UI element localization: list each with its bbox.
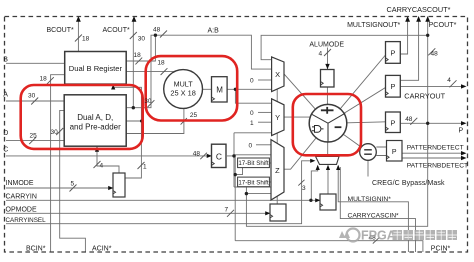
wire P2 out carryout (401, 85, 465, 87)
wire CARRYIN input (6, 199, 320, 201)
slash CARRYOUT width 4 (450, 80, 457, 87)
junction PCIN to shift (234, 173, 237, 176)
svg-text:P: P (390, 48, 395, 57)
wire MULT to M register (203, 88, 212, 90)
wire P feedback top run to X mux (261, 19, 428, 123)
slash PCIN width 48 (373, 238, 379, 244)
svg-text:18: 18 (134, 52, 142, 59)
arrowhead BCOUT (76, 16, 81, 22)
svg-text:CARRYCASCOUT*: CARRYCASCOUT* (387, 5, 451, 14)
wire Z mux const 0 stub (256, 144, 271, 146)
slash D width 25 (29, 137, 36, 144)
wire B input (6, 62, 65, 64)
wire ACIN cascade (60, 110, 86, 252)
mux Y (272, 99, 284, 136)
arrowhead PATTERNBDETECT (461, 156, 467, 160)
arrowhead CARRYIN register in (315, 198, 320, 202)
svg-text:0: 0 (249, 143, 253, 150)
wire ACOUT up (132, 19, 134, 108)
svg-text:3: 3 (302, 185, 306, 192)
wire P2 out carrycascout (401, 19, 419, 80)
svg-text:30: 30 (138, 36, 146, 43)
register P4 pattern detect (387, 141, 403, 162)
svg-text:4: 4 (319, 50, 323, 57)
slash OPMODE width 7 (227, 210, 234, 217)
svg-text:ACIN*: ACIN* (92, 245, 112, 252)
register ALUMODE (321, 70, 335, 88)
wire B out to A:B (126, 35, 155, 61)
arrowheads (76, 16, 467, 215)
wire carryin register to carry mux (327, 166, 329, 194)
slash A:B width 48 (160, 31, 167, 38)
wire C out branch to Y and Z mux (227, 133, 272, 187)
svg-text:MULTSIGNOUT*: MULTSIGNOUT* (347, 22, 400, 29)
wire BCOUT up (77, 19, 79, 52)
register Dual B Register (65, 52, 127, 85)
slash ACOUT width 30 (130, 32, 137, 39)
svg-text:and Pre-adder: and Pre-adder (70, 123, 121, 132)
svg-text:0: 0 (250, 110, 254, 117)
wire PCIN entry (235, 241, 423, 252)
arrowhead P output (461, 121, 467, 125)
arrowhead ACOUT (132, 16, 137, 22)
svg-text:FPGA: FPGA (361, 229, 396, 243)
svg-text:MULTSIGNIN*: MULTSIGNIN* (348, 196, 392, 203)
wire multsignin to carry mux (338, 166, 408, 252)
wire INMODE register out 4 bits (97, 147, 119, 173)
arrowhead INMODE register in (108, 186, 113, 190)
svg-text:X: X (275, 70, 280, 79)
wire M out branch to Y mux (235, 89, 271, 103)
arrowhead carry mux input 2 (326, 165, 330, 170)
register OPMODE (270, 204, 286, 221)
svg-text:CARRYINSEL: CARRYINSEL (6, 217, 47, 224)
slash width ticks (29, 31, 456, 244)
svg-text:PCIN*: PCIN* (431, 245, 451, 252)
slash INMODE reg out 4 (94, 161, 101, 168)
wire A out to A:B (126, 35, 155, 108)
svg-text:18: 18 (157, 60, 165, 67)
block 17-Bit Shift upper (238, 158, 270, 168)
wire INMODE register out 1 bit (113, 85, 141, 179)
arrowhead ALUMODE register in (325, 64, 329, 69)
arrowhead INMODE to Dual B (111, 84, 115, 89)
svg-text:48: 48 (193, 150, 201, 157)
wire Y mux const 0 stub (258, 111, 272, 113)
svg-text:P: P (390, 118, 395, 127)
svg-text:C: C (3, 147, 8, 154)
slash PCOUT width 48 (428, 48, 435, 55)
wire P1 out multsignout (401, 19, 408, 54)
junction INMODE bit to Dual A,D (140, 120, 143, 123)
wire ALUMODE register to ALU (326, 87, 328, 106)
register INMODE (113, 173, 125, 197)
slash ACIN width 30 (56, 128, 63, 135)
wire comparator to P4 (376, 147, 386, 156)
slash A width 30 (31, 98, 38, 105)
slash ALUMODE width 4 (324, 49, 331, 56)
junction P feedback top (426, 34, 429, 37)
junction A:B bus (154, 34, 157, 37)
svg-text:30: 30 (144, 98, 152, 105)
arrowhead CARRYOUT (461, 84, 467, 88)
comparator equals circle (360, 144, 377, 161)
wire ALUMODE down to register (327, 48, 329, 70)
svg-text:M: M (216, 85, 223, 94)
svg-text:CARRYOUT: CARRYOUT (404, 92, 445, 101)
svg-text:7: 7 (225, 206, 229, 213)
svg-text:30: 30 (28, 93, 36, 100)
slash P width 48 (410, 118, 417, 125)
register M (212, 77, 228, 102)
slash INMODE reg out 1 (138, 162, 145, 169)
wire PCIN vertical to Z mux (235, 155, 271, 241)
red highlight oval multiplier (146, 56, 238, 120)
svg-text:PCOUT*: PCOUT* (429, 20, 457, 29)
arrowhead MULTSIGNOUT (405, 16, 410, 22)
arrowhead carry mux input 1 (316, 165, 320, 170)
svg-text:PATTERNDETECT: PATTERNDETECT (407, 145, 464, 152)
slash AD width 25 (181, 118, 187, 125)
wire A input (6, 100, 64, 102)
svg-text:PATTERNBDETECT: PATTERNBDETECT (407, 163, 468, 170)
wire BCIN cascade (51, 75, 65, 252)
arrowhead C register in (207, 154, 212, 158)
svg-text:48: 48 (405, 116, 413, 123)
arrowhead PCOUT (425, 16, 430, 22)
svg-text:18: 18 (82, 36, 90, 43)
svg-text:25: 25 (30, 133, 38, 140)
slash BCOUT width 18 (75, 35, 82, 42)
wire P feedback to Z and shift 2 (246, 123, 427, 226)
svg-text:BCIN*: BCIN* (26, 245, 46, 252)
arrowhead CARRYINSEL select (310, 159, 315, 163)
svg-text:30: 30 (51, 129, 59, 136)
register P2 carryout (386, 75, 401, 97)
svg-text:17-Bit Shift: 17-Bit Shift (238, 179, 269, 186)
svg-text:17-Bit Shift: 17-Bit Shift (238, 160, 269, 167)
slash B to MULT width 18 (161, 68, 168, 75)
wire OPMODE input (6, 212, 270, 214)
wire PATTERNBDETECT out (402, 157, 465, 159)
block 17-Bit Shift lower (238, 177, 270, 187)
arrowhead INMODE to Dual A,D (95, 147, 99, 152)
carry select mux trapezoid (316, 157, 339, 165)
slash BCIN width 18 (47, 77, 54, 84)
wire 17-bit shift 1 out to Z (269, 162, 271, 164)
wire PATTERNDETECT out (402, 152, 465, 154)
ALU circle (309, 104, 347, 142)
svg-text:0: 0 (250, 78, 254, 85)
junction CARRYIN direct (309, 199, 312, 202)
register CARRYIN (320, 194, 336, 210)
svg-text:Y: Y (275, 113, 280, 122)
svg-text:ALUMODE: ALUMODE (309, 42, 344, 49)
arrowhead PATTERNDETECT (461, 151, 467, 155)
svg-text:CREG/C Bypass/Mask: CREG/C Bypass/Mask (372, 180, 445, 187)
svg-text:D: D (3, 130, 8, 137)
svg-text:MULT: MULT (174, 80, 194, 89)
svg-text:P: P (392, 149, 397, 156)
block Dual A, D, and Pre-adder (64, 95, 126, 146)
wire X mux out to ALU (284, 74, 328, 123)
arrowhead CARRYCASCOUT (416, 16, 421, 22)
svg-text:A:B: A:B (208, 27, 220, 34)
junction P feedback to Z (245, 192, 248, 195)
arrowhead carry mux input 3 (336, 165, 340, 170)
svg-text:48: 48 (153, 27, 161, 34)
svg-text:CARRYCASCIN*: CARRYCASCIN* (348, 212, 400, 219)
svg-text:INMODE: INMODE (6, 180, 34, 187)
wire AD out to multiplier (126, 108, 184, 134)
bus width number labels (28, 27, 451, 242)
mux Z (271, 140, 284, 200)
wire INMODE input (6, 187, 113, 189)
svg-text:C: C (216, 151, 222, 161)
svg-text:B: B (3, 57, 8, 64)
red highlight oval pre-adder (21, 85, 143, 149)
svg-text:OPMODE: OPMODE (6, 207, 37, 214)
junction M output (234, 88, 237, 91)
svg-text:P: P (459, 128, 464, 135)
svg-text:25 X 18: 25 X 18 (170, 88, 195, 97)
wire Y mux out to ALU (284, 116, 311, 118)
wire carryin direct to carry mux (311, 166, 317, 200)
wire ALU to P2 (328, 88, 386, 124)
svg-text:48: 48 (431, 51, 439, 58)
svg-text:Dual B Register: Dual B Register (69, 64, 123, 73)
wire C input (6, 155, 211, 157)
svg-text:Z: Z (275, 166, 280, 175)
arrowhead OPMODE register in (265, 211, 270, 215)
wire carrycascin to carry mux (340, 167, 415, 252)
red highlight oval ALU (293, 94, 361, 155)
wire Y mux const 1 stub (258, 121, 272, 123)
svg-text:P: P (390, 82, 395, 91)
wire ALU to P1 (328, 55, 386, 123)
junction ACOUT branch (132, 106, 135, 109)
svg-text:4: 4 (447, 77, 451, 84)
register P3 output (386, 112, 401, 133)
mux X (272, 57, 284, 92)
wire ALU to P3 (328, 122, 386, 124)
wire Z mux out to ALU (284, 123, 328, 169)
register C (212, 144, 227, 167)
slash B to A:B width 18 (135, 58, 142, 65)
multiplier MULT 25 X 18 (164, 70, 203, 109)
wire X mux const 0 stub (258, 79, 272, 81)
svg-text:5: 5 (71, 180, 75, 187)
wire D input (6, 140, 64, 142)
wire M out to X mux (227, 88, 272, 90)
wire mask input to comparator (367, 160, 369, 176)
register P1 multsignout (386, 42, 401, 64)
wire A:B bus to X mux (155, 35, 271, 69)
svg-text:ACOUT*: ACOUT* (103, 27, 131, 34)
svg-text:18: 18 (40, 76, 48, 83)
wire 17-bit shift 2 out to Z (269, 181, 271, 183)
wire B out to multiplier (126, 71, 175, 73)
svg-text:BCOUT*: BCOUT* (47, 27, 75, 34)
watermark (339, 229, 457, 243)
slash INMODE width 5 (70, 185, 77, 192)
slash C width 48 (200, 153, 207, 160)
svg-text:4: 4 (100, 163, 104, 170)
slash A to A:B width 30 (148, 100, 155, 107)
wire P3 out to border (400, 122, 464, 124)
svg-text:A: A (3, 92, 8, 99)
svg-text:Dual A, D,: Dual A, D, (77, 113, 113, 122)
slash CARRYINSEL width 3 (298, 180, 304, 186)
wire CARRYINSEL (6, 161, 313, 224)
wire ALU to comparator (328, 123, 368, 152)
svg-text:CARRYIN: CARRYIN (6, 193, 37, 200)
svg-text:25: 25 (190, 112, 198, 119)
svg-text:1: 1 (250, 120, 254, 127)
wire OPMODE register out up through muxes (276, 89, 278, 204)
wire carry mux out to ALU (327, 140, 329, 157)
svg-text:1: 1 (143, 164, 147, 171)
junction P output bus (426, 122, 429, 125)
wire PCIN branch to 17-bit shift 1 (235, 168, 242, 175)
junction C bus (232, 154, 235, 157)
